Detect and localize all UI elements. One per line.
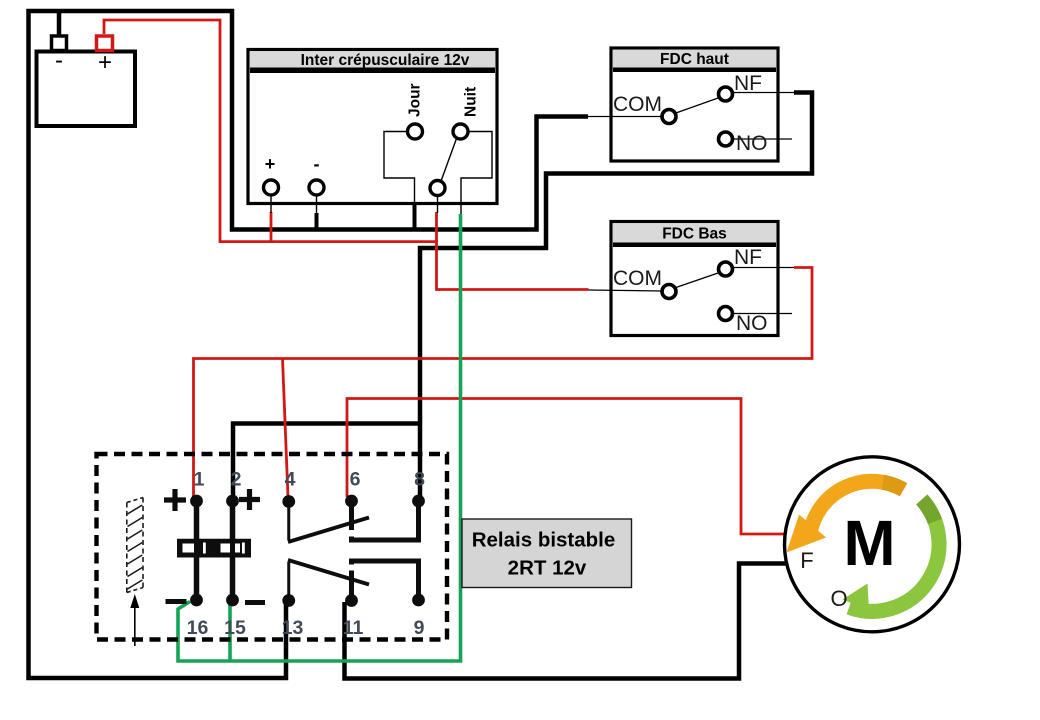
motor green arrow head xyxy=(843,584,870,611)
svg-text:+: + xyxy=(265,154,276,174)
thin wire minus stub xyxy=(316,195,318,213)
svg-text:FDC Bas: FDC Bas xyxy=(662,226,727,243)
svg-text:-: - xyxy=(314,154,320,174)
motor orange arrow head xyxy=(787,515,827,553)
wire red: Inter common to FDC Bas COM xyxy=(437,212,589,290)
Inter crepusculaire box U1 xyxy=(248,50,497,215)
relay contact: pin 11 stub xyxy=(349,571,354,601)
contact circle COM xyxy=(662,285,676,299)
relay polarity plus sign (coil 1) xyxy=(164,489,186,511)
wire red: relay pin 6 to motor F xyxy=(347,399,786,535)
relay pin dots bottom row xyxy=(190,594,203,607)
thin wire common stub xyxy=(437,196,439,213)
contact circle COM xyxy=(662,110,676,124)
svg-text:O: O xyxy=(830,586,847,611)
battery plus terminal xyxy=(97,36,113,51)
wire red: Inter plus terminal drop xyxy=(270,212,273,243)
svg-text:+: + xyxy=(98,49,112,76)
wire: Inter minus terminal stub to minus line xyxy=(315,213,319,232)
thin wire plus stub xyxy=(270,195,272,213)
terminal circle common xyxy=(430,181,445,196)
relay actuator arrow xyxy=(134,606,136,646)
svg-text:6: 6 xyxy=(350,469,361,491)
wire: Jour terminal stub to minus line xyxy=(413,204,417,232)
thin lead NF right xyxy=(733,267,794,269)
svg-text:4: 4 xyxy=(285,469,296,491)
terminal circle Nuit xyxy=(453,124,468,139)
svg-text:11: 11 xyxy=(343,617,364,639)
wire: FDC haut NF to relay pins 8 and 2 xyxy=(420,93,812,498)
svg-text:Nuit: Nuit xyxy=(463,87,480,117)
svg-text:NF: NF xyxy=(734,246,762,269)
svg-text:8: 8 xyxy=(414,469,425,491)
relay label box xyxy=(462,519,632,588)
svg-text:13: 13 xyxy=(282,617,304,639)
relay actuator hatch xyxy=(127,498,143,593)
svg-text:NF: NF xyxy=(734,72,762,95)
battery xyxy=(37,36,136,126)
battery minus terminal xyxy=(52,36,67,51)
wire red: FDC Bas NF to relay pin 1 xyxy=(194,268,813,499)
relay polarity minus sign (coil 1) xyxy=(166,599,187,604)
thin lead COM left xyxy=(588,116,662,118)
svg-text:2: 2 xyxy=(231,469,242,491)
thin wire Nuit internal path xyxy=(461,132,492,215)
relay K1 dashed outline xyxy=(97,454,448,640)
terminal circle minus xyxy=(309,180,324,195)
wire: battery minus terminal stub xyxy=(57,9,62,36)
FDC haut box S1 xyxy=(588,48,794,161)
wire: motor F black to relay pin 11 xyxy=(345,564,787,679)
relay contact arm bottom (13 to 11) xyxy=(288,560,369,585)
terminal circle Jour xyxy=(408,124,423,139)
svg-text:Inter crépusculaire 12v: Inter crépusculaire 12v xyxy=(301,52,470,69)
wire red: branch to relay pin 4 xyxy=(283,359,289,498)
relay coil block (boxes for coil 1 and 2) xyxy=(177,539,251,558)
svg-text:COM: COM xyxy=(613,267,662,290)
wire green: relay pin 15 drop xyxy=(228,604,232,662)
thin lead NO right xyxy=(733,138,792,140)
svg-text:Jour: Jour xyxy=(407,83,424,117)
contact circle NO xyxy=(719,307,733,321)
FDC Bas box S2 xyxy=(589,222,795,336)
svg-text:COM: COM xyxy=(613,93,662,116)
relay contact L (11/9) xyxy=(352,561,419,600)
motor green arrow arc xyxy=(849,500,939,612)
relay coil 1 (pins 1-16) xyxy=(194,501,200,600)
thin lead COM left xyxy=(589,290,663,291)
motor M1 body xyxy=(785,457,960,632)
contact circle NO xyxy=(719,132,733,146)
relay coil 2 (pins 2-15) xyxy=(230,501,236,600)
motor orange arrow arc xyxy=(810,481,904,534)
svg-text:FDC haut: FDC haut xyxy=(660,51,729,68)
relay polarity plus sign (coil 2) xyxy=(239,489,260,510)
svg-text:F: F xyxy=(800,548,813,573)
wire red: battery plus to Inter supply line xyxy=(104,20,437,242)
svg-text:1: 1 xyxy=(194,469,205,491)
switch arm Inter xyxy=(441,139,457,183)
relay contact: pin 6 stub xyxy=(349,501,354,530)
contact circle NF xyxy=(719,262,733,276)
relay contact: pin 13 stub xyxy=(287,562,290,600)
switch arm FDC haut xyxy=(675,98,720,114)
relay contact: pin 4 stub xyxy=(287,501,290,540)
svg-text:-: - xyxy=(55,47,63,74)
svg-text:NO: NO xyxy=(736,312,768,335)
terminal circle plus xyxy=(264,180,279,195)
thin lead NO right xyxy=(733,313,792,315)
relay contact arm top (4 to 6) xyxy=(288,518,369,543)
switch arm FDC Bas xyxy=(675,273,720,289)
contact circle NF xyxy=(719,87,733,101)
relay polarity minus sign (coil 2) xyxy=(245,600,265,605)
svg-text:M: M xyxy=(844,507,896,579)
thin lead NF right xyxy=(733,92,794,94)
relay contact L (6/8) xyxy=(352,501,419,540)
svg-text:NO: NO xyxy=(736,132,768,155)
svg-text:2RT 12v: 2RT 12v xyxy=(508,557,587,580)
svg-text:9: 9 xyxy=(414,617,425,639)
wire green: Inter Nuit to relay pin 16 xyxy=(178,214,461,661)
wire: branch to relay pin 2 xyxy=(233,424,422,498)
svg-text:16: 16 xyxy=(187,617,209,639)
svg-text:Relais bistable: Relais bistable xyxy=(472,529,616,552)
svg-text:15: 15 xyxy=(224,617,246,639)
relay pin dots top row xyxy=(190,495,203,508)
thin wire Jour internal path xyxy=(384,132,415,204)
wire: battery minus main loop (top, left border, bottom to pin 13, and up to FDC haut COM) xyxy=(29,11,589,678)
